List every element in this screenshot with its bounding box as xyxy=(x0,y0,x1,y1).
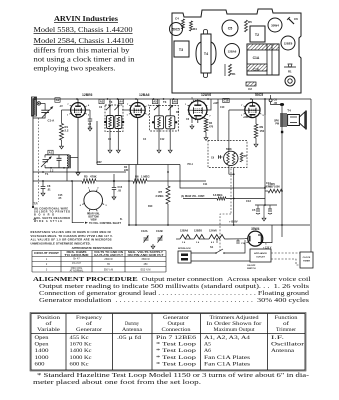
svg-text:Variable: Variable xyxy=(37,327,61,333)
trimmer A4 xyxy=(114,105,119,110)
capacitor C10 on bus xyxy=(223,98,229,102)
tube pin numbers 50C5 xyxy=(259,112,261,115)
svg-text:B-: B- xyxy=(120,218,123,221)
svg-text:INTERLOCK: INTERLOCK xyxy=(178,248,191,250)
svg-text:Trimmers Adjusted: Trimmers Adjusted xyxy=(210,315,259,321)
svg-text:AT NORMAL: AT NORMAL xyxy=(70,270,84,273)
svg-text:OUTLET: OUTLET xyxy=(256,257,265,259)
tube pin numbers 12BA6 xyxy=(145,112,147,115)
ground (C2) xyxy=(88,126,92,131)
svg-text:T4: T4 xyxy=(287,109,291,113)
tube pin numbers 35W4 xyxy=(262,241,264,244)
ground (R4) xyxy=(205,132,207,136)
AVC feed wire xyxy=(217,99,219,141)
svg-text:APPROXIMATE RESISTANCES: APPROXIMATE RESISTANCES xyxy=(72,246,113,250)
svg-text:T3: T3 xyxy=(109,100,113,104)
svg-text:+100V: +100V xyxy=(268,183,275,186)
transformer T2 (layout) xyxy=(250,26,265,42)
alignment table xyxy=(30,313,306,372)
B+ bus wire xyxy=(33,171,126,173)
svg-text:GA PLATE AND PLT: GA PLATE AND PLT xyxy=(94,254,124,257)
trimmer label A2 xyxy=(55,98,60,103)
svg-text:3500 W: 3500 W xyxy=(141,258,150,261)
svg-text:T4: T4 xyxy=(204,52,208,56)
svg-text:+B: +B xyxy=(33,218,36,221)
capacitor C16 xyxy=(237,239,239,241)
svg-text:R10: R10 xyxy=(148,205,153,208)
B+ feed resistor R8 xyxy=(268,189,282,193)
switch mechanical link (dashed) xyxy=(230,169,232,215)
svg-text:-1V: -1V xyxy=(59,105,63,108)
screen bus wire xyxy=(97,164,180,166)
volume control assembly box xyxy=(208,141,247,168)
shaft linkage wire xyxy=(72,181,84,223)
svg-text:.05: .05 xyxy=(118,190,122,193)
svg-text:Pin 7 12BE6: Pin 7 12BE6 xyxy=(156,335,196,341)
svg-text:1400: 1400 xyxy=(35,348,49,354)
svg-text:470K: 470K xyxy=(90,175,97,179)
svg-text:50C5: 50C5 xyxy=(255,93,263,97)
svg-text:12BE6: 12BE6 xyxy=(284,42,293,46)
small voltage table xyxy=(32,251,166,273)
svg-text:.01: .01 xyxy=(47,188,51,192)
svg-text:ES2 ½ M: ES2 ½ M xyxy=(141,268,151,272)
svg-text:A3: A3 xyxy=(100,100,104,104)
svg-text:Connection of generator ground: Connection of generator ground lead . . … xyxy=(39,290,309,297)
capacitor C2 (layout) xyxy=(246,82,256,86)
svg-text:Open: Open xyxy=(35,335,49,341)
resistor R6 1 MEG xyxy=(133,179,147,183)
svg-text:470: 470 xyxy=(209,126,214,129)
svg-text:* Test Loop: * Test Loop xyxy=(156,355,196,361)
svg-text:R7: R7 xyxy=(159,190,163,194)
transformer T4 (layout) xyxy=(201,34,211,73)
svg-text:CLOCK: CLOCK xyxy=(303,257,311,259)
svg-text:550 ½ M: 550 ½ M xyxy=(104,268,113,272)
osc coil winding xyxy=(67,156,68,169)
svg-text:C10: C10 xyxy=(224,98,229,102)
svg-text:C4: C4 xyxy=(175,17,179,21)
top AVC bus wire xyxy=(33,98,311,100)
trimmer C1B xyxy=(43,160,49,162)
svg-text:ALL VALUES OF 1.0 OR GREATER A: ALL VALUES OF 1.0 OR GREATER ARE IN MICR… xyxy=(31,238,112,242)
svg-text:12BA6: 12BA6 xyxy=(228,50,237,54)
svg-text:S1: S1 xyxy=(210,245,214,249)
antenna terminal xyxy=(37,102,40,105)
svg-text:.05 µ fd: .05 µ fd xyxy=(117,334,141,341)
trimmer C12B xyxy=(158,238,163,240)
filter capacitor C5A/C5B xyxy=(255,204,277,206)
svg-text:WIRE A STYLE: WIRE A STYLE xyxy=(34,220,62,223)
svg-text:C10: C10 xyxy=(220,106,225,109)
IF transformer T2 xyxy=(99,99,104,103)
ground (12BE6 cathode) xyxy=(76,171,80,176)
svg-text:meter placed about one foot fr: meter placed about one foot from the set… xyxy=(33,379,202,386)
svg-text:Function: Function xyxy=(275,315,298,321)
svg-text:1670 Kc: 1670 Kc xyxy=(70,342,93,348)
svg-text:C5: C5 xyxy=(228,27,233,31)
svg-text:R5: R5 xyxy=(248,20,252,24)
svg-text:Maximum Output: Maximum Output xyxy=(214,327,255,333)
svg-text:C11: C11 xyxy=(203,183,208,186)
svg-text:R1: R1 xyxy=(232,72,236,76)
svg-text:Dummy: Dummy xyxy=(125,321,139,327)
svg-text:Model 2584, Chassis 1.44100: Model 2584, Chassis 1.44100 xyxy=(34,37,134,45)
lower bus wire xyxy=(128,165,130,226)
svg-text:+ B 8V: + B 8V xyxy=(229,220,238,224)
svg-text:A2: A2 xyxy=(56,98,60,102)
svg-text:2.2: 2.2 xyxy=(65,129,69,133)
svg-text:1400 Kc: 1400 Kc xyxy=(70,348,93,354)
svg-text:Generator: Generator xyxy=(76,327,102,333)
svg-text:R1: R1 xyxy=(288,70,292,74)
svg-text:A5: A5 xyxy=(204,342,211,348)
svg-text:B+ 47: B+ 47 xyxy=(73,258,80,261)
tube 12BE6 (layout) xyxy=(281,36,295,50)
chassis layout outline xyxy=(172,9,301,93)
svg-text:600 Kc: 600 Kc xyxy=(70,361,90,367)
audio bus with R10 xyxy=(183,198,217,200)
trimmer C12A xyxy=(144,238,149,240)
cap inside vol box xyxy=(219,156,223,158)
svg-text:T3: T3 xyxy=(179,48,183,52)
electrolytic C5 (layout) xyxy=(222,20,238,36)
svg-text:6.8 MEG: 6.8 MEG xyxy=(213,194,223,197)
line bus xyxy=(270,224,310,226)
svg-text:Connection: Connection xyxy=(162,327,191,333)
svg-text:TO VOL. CONTROL SHAFT: TO VOL. CONTROL SHAFT xyxy=(89,222,121,225)
trimmer A6 xyxy=(168,105,173,110)
osc coil tap to cathode xyxy=(70,157,78,159)
svg-text:Position: Position xyxy=(37,315,60,321)
volume control rear view xyxy=(84,191,103,210)
wiring note block xyxy=(34,208,70,223)
pilot lead (layout) xyxy=(224,64,226,76)
svg-text:* Standard Hazeltine Test Loop: * Standard Hazeltine Test Loop Model 115… xyxy=(37,372,309,379)
heater bus wire xyxy=(176,238,180,240)
svg-text:Trimmer: Trimmer xyxy=(276,327,296,333)
svg-text:ON-OFF: ON-OFF xyxy=(247,265,256,267)
svg-text:T.P.: T.P. xyxy=(34,202,39,206)
vol wiring xyxy=(228,110,230,151)
svg-text:C12B: C12B xyxy=(156,229,163,233)
ground (C8) xyxy=(41,191,45,196)
svg-text:ON PIN AND GND PLT: ON PIN AND GND PLT xyxy=(128,254,165,257)
svg-text:Output meter reading to indica: Output meter reading to indicate 500 mil… xyxy=(39,283,310,290)
svg-text:22K: 22K xyxy=(124,169,129,172)
ground (R1) xyxy=(61,140,63,144)
svg-text:2500 W: 2500 W xyxy=(104,258,113,261)
ground (C12) xyxy=(151,244,155,249)
ground (T3 pri) xyxy=(157,148,161,153)
svg-text:+92V: +92V xyxy=(213,102,219,105)
svg-text:Open: Open xyxy=(35,342,49,348)
svg-text:A6: A6 xyxy=(173,100,177,104)
svg-text:C12A: C12A xyxy=(141,229,148,233)
left bus wire xyxy=(32,99,34,207)
svg-text:PO-1: PO-1 xyxy=(188,164,194,166)
svg-text:+86V: +86V xyxy=(96,161,102,164)
bypass capacitor C15 xyxy=(113,174,115,187)
svg-text:T3: T3 xyxy=(163,100,167,104)
loop antenna L1 xyxy=(32,97,37,116)
power switch S1 xyxy=(195,252,216,254)
svg-text:C2: C2 xyxy=(248,87,252,91)
svg-text:T2: T2 xyxy=(255,33,259,37)
svg-text:R6: R6 xyxy=(135,175,139,179)
svg-text:C1A: C1A xyxy=(253,56,260,60)
svg-text:I.F.: I.F. xyxy=(271,335,285,341)
svg-text:VOLTAGES MEAS. TO CHASSIS WITH: VOLTAGES MEAS. TO CHASSIS WITH VTVM LINE… xyxy=(31,234,113,238)
resistor R4 (layout) xyxy=(190,21,193,31)
pilot lamp tap xyxy=(216,239,218,243)
svg-text:A1: A1 xyxy=(49,151,53,155)
timer dashed wires xyxy=(271,252,300,254)
trimmer A5 xyxy=(154,105,159,110)
transformer T3 (layout) xyxy=(174,41,189,57)
svg-text:(A) REAR VOL. CONT.: (A) REAR VOL. CONT. xyxy=(181,195,205,198)
svg-text:C1-A: C1-A xyxy=(48,119,56,123)
svg-text:2 MEG: 2 MEG xyxy=(156,194,164,198)
volume control R6 xyxy=(224,151,238,165)
tube pin numbers 12AV6 xyxy=(206,113,208,116)
ground (T2 pri) xyxy=(108,148,112,153)
svg-text:12BE6: 12BE6 xyxy=(194,229,202,233)
svg-text:12AV6: 12AV6 xyxy=(201,93,211,97)
ground (filter) xyxy=(262,216,266,221)
svg-text:1000 Kc: 1000 Kc xyxy=(70,355,93,361)
svg-text:In Order Shown for: In Order Shown for xyxy=(207,320,262,327)
svg-text:C13: C13 xyxy=(246,199,251,203)
ground (T2 sec) xyxy=(116,148,120,153)
svg-text:of: of xyxy=(283,320,289,327)
svg-text:50C5: 50C5 xyxy=(172,28,180,32)
svg-text:R5: R5 xyxy=(84,175,88,179)
svg-text:APPLIANCE: APPLIANCE xyxy=(254,252,267,255)
svg-text:PM: PM xyxy=(275,123,279,126)
tube 50C5 (layout) xyxy=(170,23,183,36)
svg-text:35W4: 35W4 xyxy=(271,24,279,28)
trimmer C6 (layout) xyxy=(288,18,294,24)
trimmer A3 xyxy=(106,105,111,110)
svg-text:of: of xyxy=(86,320,92,327)
AVC bus resistor R5 xyxy=(33,180,82,182)
svg-text:15 of 47: 15 of 47 xyxy=(72,262,81,265)
plate supply vertical wire xyxy=(264,99,266,188)
svg-text:Frequency: Frequency xyxy=(76,315,102,321)
IF transformer T3 xyxy=(152,99,157,103)
svg-text:* Test Loop: * Test Loop xyxy=(156,342,196,348)
title text block xyxy=(34,15,135,73)
junction dots xyxy=(76,98,78,100)
ground (50C5 cathode) xyxy=(255,138,257,142)
svg-text:Output: Output xyxy=(168,321,185,327)
svg-text:SWITCH: SWITCH xyxy=(247,268,256,270)
bypass capacitor C8 xyxy=(42,181,44,186)
alignment table text xyxy=(35,315,305,368)
svg-text:RESISTANCE VALUES ARE IN OHMS: RESISTANCE VALUES ARE IN OHMS K=1000 MEG… xyxy=(31,230,112,234)
svg-text:+85V: +85V xyxy=(243,116,249,119)
tuning gang C1A/C1B (layout) xyxy=(247,44,279,75)
svg-text:TO GROUND: TO GROUND xyxy=(65,254,89,257)
svg-text:Generator: Generator xyxy=(163,315,189,321)
svg-text:Oscillator: Oscillator xyxy=(271,342,304,348)
tube pin numbers 12BE6 xyxy=(85,113,87,114)
svg-text:R4: R4 xyxy=(193,27,197,31)
svg-text:* Test Loop: * Test Loop xyxy=(156,361,196,367)
svg-text:35W4: 35W4 xyxy=(251,227,260,231)
svg-text:12BE6: 12BE6 xyxy=(82,93,92,97)
alignment procedure paragraph xyxy=(33,277,311,304)
svg-text:600: 600 xyxy=(35,361,45,367)
trimmer C1A xyxy=(41,110,49,112)
tuning shaft (layout) xyxy=(285,76,295,86)
svg-text:1 MEG: 1 MEG xyxy=(141,175,150,179)
svg-text:of: of xyxy=(46,320,52,327)
svg-text:T1: T1 xyxy=(45,172,49,176)
svg-text:ARVIN Industries: ARVIN Industries xyxy=(54,15,118,23)
svg-text:12BA6: 12BA6 xyxy=(139,93,150,97)
svg-text:12AV6: 12AV6 xyxy=(209,229,217,233)
svg-text:A5: A5 xyxy=(153,100,157,104)
svg-text:CIRCUIT POINT: CIRCUIT POINT xyxy=(34,252,60,255)
ground (T3 sec) xyxy=(168,148,172,153)
svg-text:C1B: C1B xyxy=(253,68,260,72)
svg-text:150: 150 xyxy=(260,129,265,133)
appliance outlet xyxy=(250,249,271,262)
grid capacitor C2 xyxy=(89,110,91,119)
speaker SP1 xyxy=(288,115,300,126)
ground (12AV6 cathode) xyxy=(191,118,193,123)
clock timer box xyxy=(300,252,313,268)
svg-text:Fan C1A Plates: Fan C1A Plates xyxy=(204,355,250,361)
loop return dashed wire xyxy=(38,118,40,202)
cathode riser xyxy=(96,121,98,165)
padder capacitor xyxy=(58,155,60,159)
svg-text:ALIGNMENT PROCEDURE Output m: ALIGNMENT PROCEDURE Output meter connect… xyxy=(33,277,311,283)
svg-text:C6: C6 xyxy=(294,17,298,21)
svg-text:12BA6: 12BA6 xyxy=(180,229,189,233)
tube 35W4 (layout) xyxy=(268,18,282,32)
svg-text:Fan C1A Plates: Fan C1A Plates xyxy=(204,361,250,367)
svg-text:TIMER: TIMER xyxy=(303,261,310,263)
resistance note xyxy=(31,230,113,245)
svg-text:A6: A6 xyxy=(204,348,211,354)
svg-text:A4: A4 xyxy=(119,100,123,104)
svg-text:455 Kc: 455 Kc xyxy=(70,335,90,341)
resistor R9 cathode xyxy=(255,118,257,124)
svg-text:employing two speakers.: employing two speakers. xyxy=(34,65,116,73)
svg-text:* Test Loop: * Test Loop xyxy=(156,348,196,354)
svg-text:UNMEASURABLE OTHERWISE INDICAT: UNMEASURABLE OTHERWISE INDICATED. xyxy=(31,241,91,245)
svg-text:Antenna: Antenna xyxy=(122,327,143,333)
resistor R4 diode load xyxy=(202,117,206,119)
svg-text:differs from this material by: differs from this material by xyxy=(34,47,130,55)
svg-text:C8: C8 xyxy=(47,184,51,188)
svg-text:450: 450 xyxy=(144,263,149,266)
svg-text:Generator modulation . . . .: Generator modulation . . . . . . . . . .… xyxy=(39,298,310,304)
right bus to timer xyxy=(310,225,312,252)
resistor R1 xyxy=(61,110,63,123)
oscillator coil T1 xyxy=(48,150,53,155)
resistor R5 (layout) xyxy=(245,20,248,32)
resistor inside vol box xyxy=(240,153,243,163)
svg-text:Antenna: Antenna xyxy=(271,348,295,354)
svg-text:1000: 1000 xyxy=(35,355,49,361)
svg-text:not using a clock timer and in: not using a clock timer and in xyxy=(34,56,135,64)
svg-text:C12: C12 xyxy=(160,138,165,141)
osc coil to bus wire xyxy=(66,168,68,181)
svg-text:C5: C5 xyxy=(252,208,256,212)
svg-text:Model 5583, Chassis 1.44200: Model 5583, Chassis 1.44200 xyxy=(34,26,133,34)
footnote xyxy=(33,372,309,386)
ground (C15) xyxy=(112,195,116,200)
resistor R7 2 MEG xyxy=(166,186,170,204)
resistor R1 (layout) xyxy=(229,64,232,76)
svg-text:A1, A2, A3, A4: A1, A2, A3, A4 xyxy=(204,335,250,341)
tube 12BA6 (layout) xyxy=(225,44,240,59)
trimmer R1 screw (layout) xyxy=(284,66,296,68)
bottom bus wire xyxy=(129,224,270,226)
